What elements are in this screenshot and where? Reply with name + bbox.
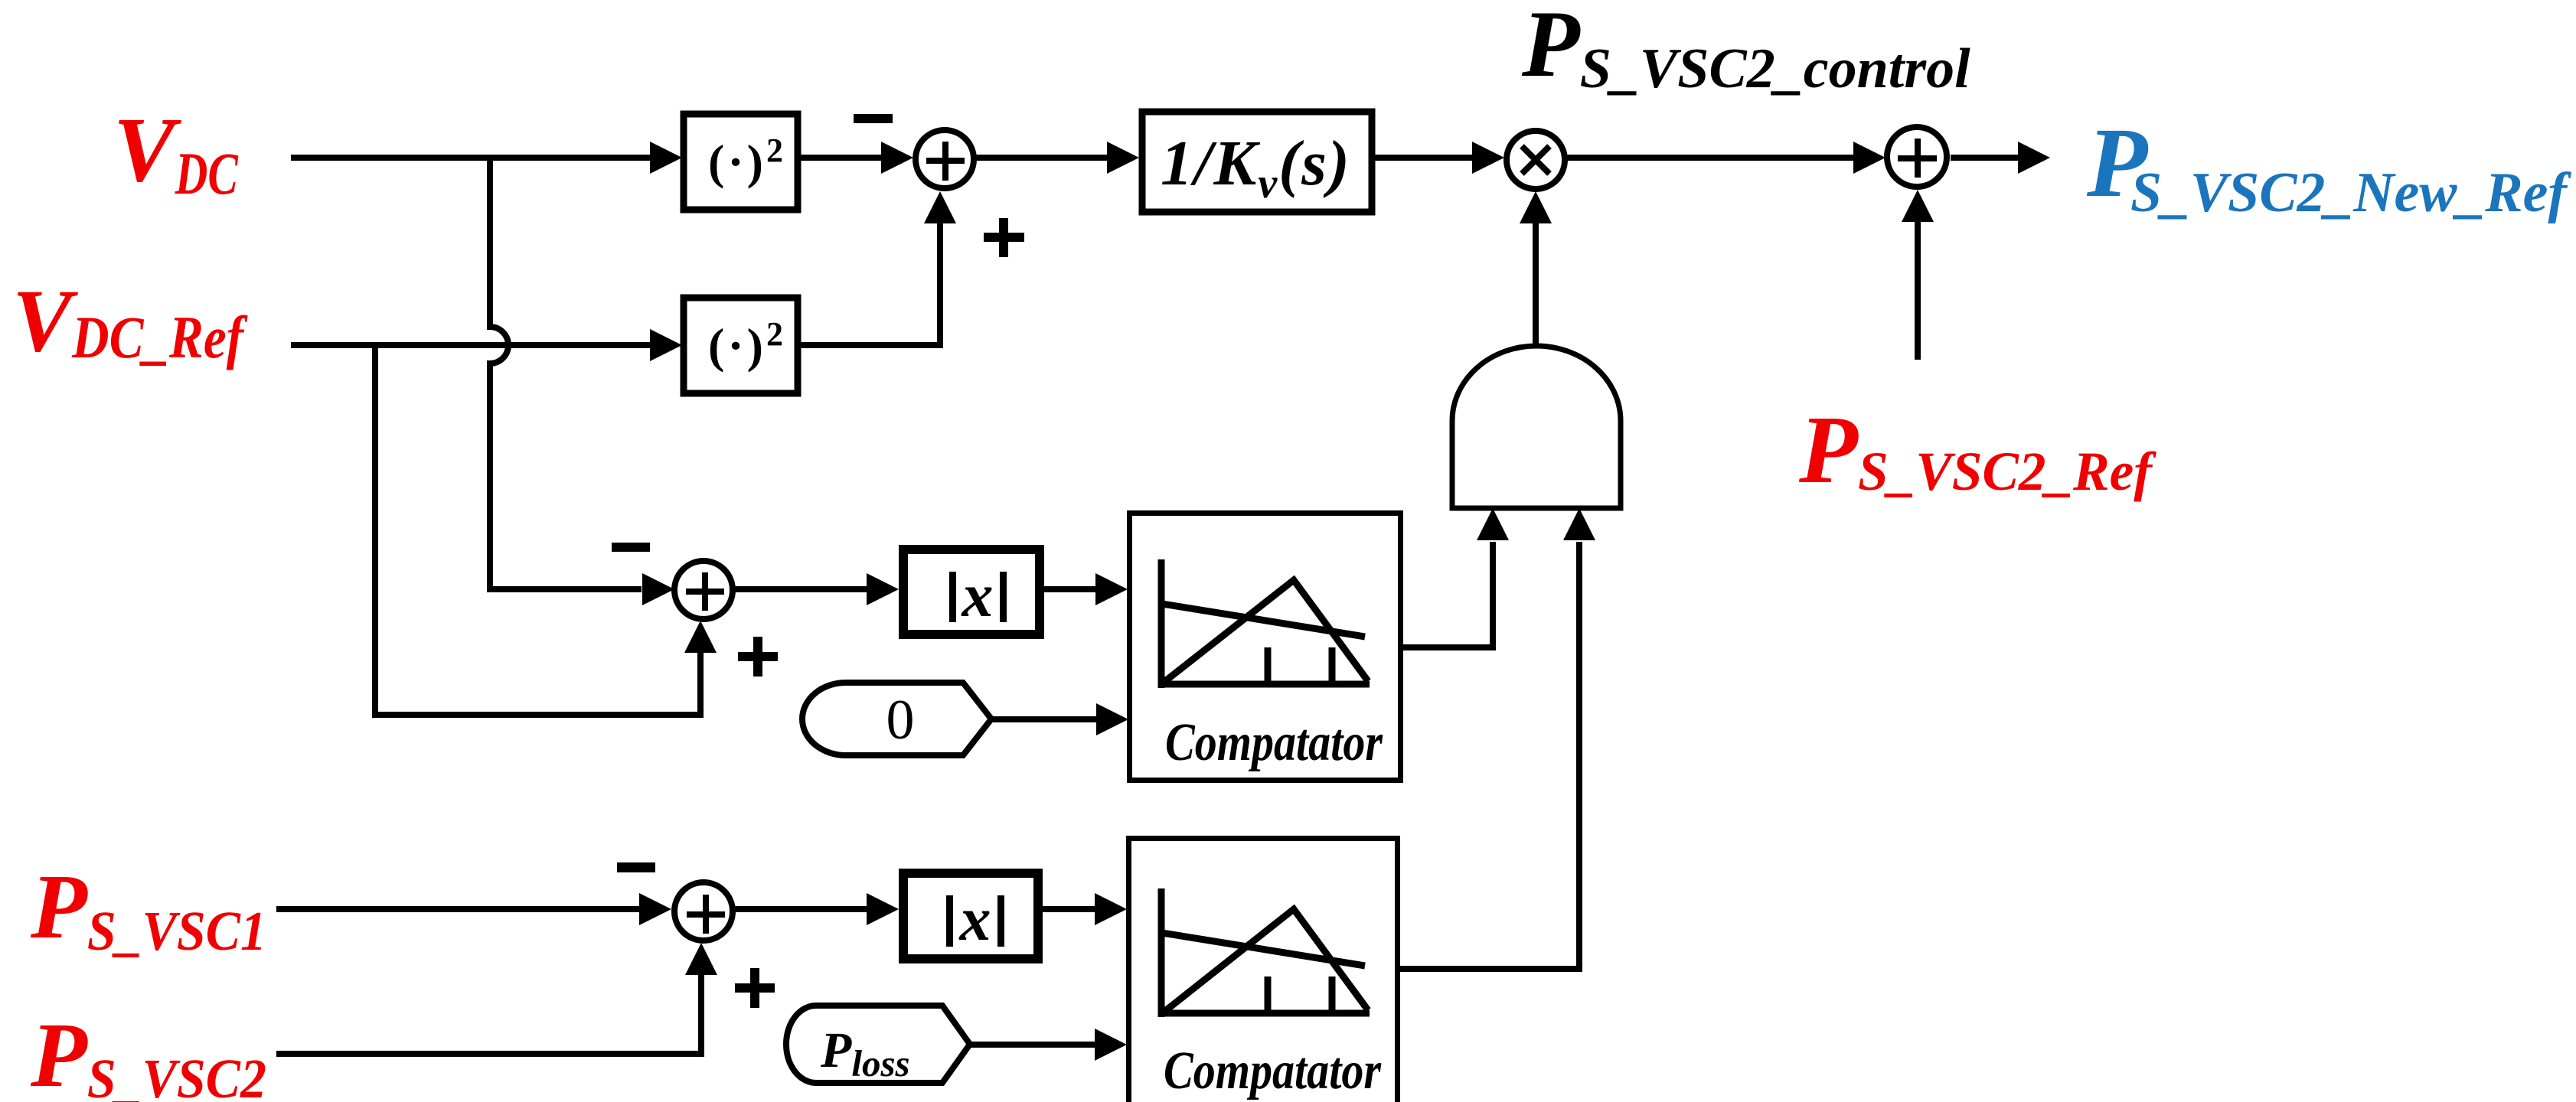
summing junction output [1887,127,1947,187]
wire arrow into Kv [1107,142,1139,174]
wire P_S_VSC2_Ref up into output sum [1915,221,1921,360]
abs block 2 [903,873,1038,959]
wire arrow up into sum1 bottom [924,191,956,223]
sign minus at sum3 [617,862,655,872]
sign minus at sum1 [854,114,893,123]
svg-text:Compatator: Compatator [1164,1042,1382,1100]
wire comparator1 output to AND gate [1403,542,1493,647]
node P_S_VSC2_control label [1521,0,1970,100]
wire arrow into abs1 [867,573,899,605]
wire P_S_VSC2 input up to sum3 bottom [276,975,701,1054]
wire P_S_VSC1 input [276,906,639,912]
node V_DC input label [113,99,238,207]
wire arrow into comparator1 input2 [1096,703,1128,735]
wire V_DC_Ref branch down to sum2 bottom [375,345,700,715]
wire arrow up into AND gate input2 [1563,508,1595,540]
constant 0 pill [802,683,991,755]
svg-text:Compatator: Compatator [1165,713,1383,772]
wire arrow up into sum3 bottom [685,943,717,975]
squarer block 1 [684,114,798,210]
comparator block 2 [1129,839,1398,1102]
svg-text:0: 0 [886,689,915,752]
svg-text:x: x [962,560,994,630]
constant P_loss pill [786,1006,970,1084]
wire arrow into squarer1 [650,142,682,174]
sign plus at sum2 [738,637,778,677]
sign plus at sum3 [735,968,775,1008]
svg-text:1/Kv(s): 1/Kv(s) [1161,128,1351,207]
wire squarer2 output up to sum1 bottom [801,223,940,345]
wire comparator2 output to AND gate [1400,542,1579,969]
wire abs1 to comparator1 [1044,586,1095,592]
wire arrow into sum3 [639,893,671,925]
transfer block 1/Kv(s) [1142,112,1372,212]
wire arrow into comparator2 input1 [1095,893,1127,925]
abs block 1 [903,549,1040,634]
wire Kv to multiplier [1375,155,1472,161]
wire arrow into output sum [1853,142,1885,174]
arrow final output [2018,142,2050,174]
AND gate [1452,346,1621,508]
wire sum1 to Kv block [976,155,1107,161]
node P_S_VSC2 input label [30,1004,266,1102]
comparator block 1 [1130,514,1401,781]
wire output arrow [1951,155,2018,161]
wire AND gate output up to multiplier [1533,223,1539,346]
wire arrow into comparator1 input1 [1095,573,1128,605]
wire arrow up into multiplier bottom [1520,191,1552,223]
wire arrow into squarer2 [650,329,682,361]
wire arrow up into sum2 bottom [684,621,717,653]
wire abs2 to comparator2 [1043,906,1095,912]
multiplier junction [1507,131,1565,189]
wire arrow into multiplier [1472,142,1504,174]
summing junction sum1 [916,130,974,188]
wire V_DC input [291,155,650,161]
node P_S_VSC2_Ref label [1798,397,2156,504]
node P_S_VSC1 input label [30,856,266,962]
wire 0 pill to comparator1 [991,716,1096,722]
wire arrow up into AND gate input1 [1477,508,1509,540]
wire arrow into sum2 left [642,573,674,605]
sign minus at sum2 [612,543,650,552]
sign plus at sum1 [984,218,1024,257]
wire P_loss to comparator2 [970,1042,1095,1048]
svg-text:x: x [959,884,991,954]
wire V_DC branch down with hop over V_DC_Ref [490,155,642,589]
squarer block 2 [684,298,798,393]
wire arrow into sum1 [881,142,913,174]
summing junction sum3 [674,882,733,941]
wire V_DC_Ref input [291,342,650,348]
node P_S_VSC2_New_Ref output label [2086,108,2571,224]
wire arrow into abs2 [867,893,899,925]
wire sum2 to abs1 [733,586,867,592]
wire arrow into comparator2 input2 [1095,1029,1127,1061]
wire multiplier to output sum [1567,155,1853,161]
wire sum3 to abs2 [733,906,867,912]
wire arrow up into output sum bottom [1902,190,1934,222]
wire squarer1 to sum1 [801,155,881,161]
node V_DC_Ref input label [12,272,248,370]
summing junction sum2 [674,561,733,619]
